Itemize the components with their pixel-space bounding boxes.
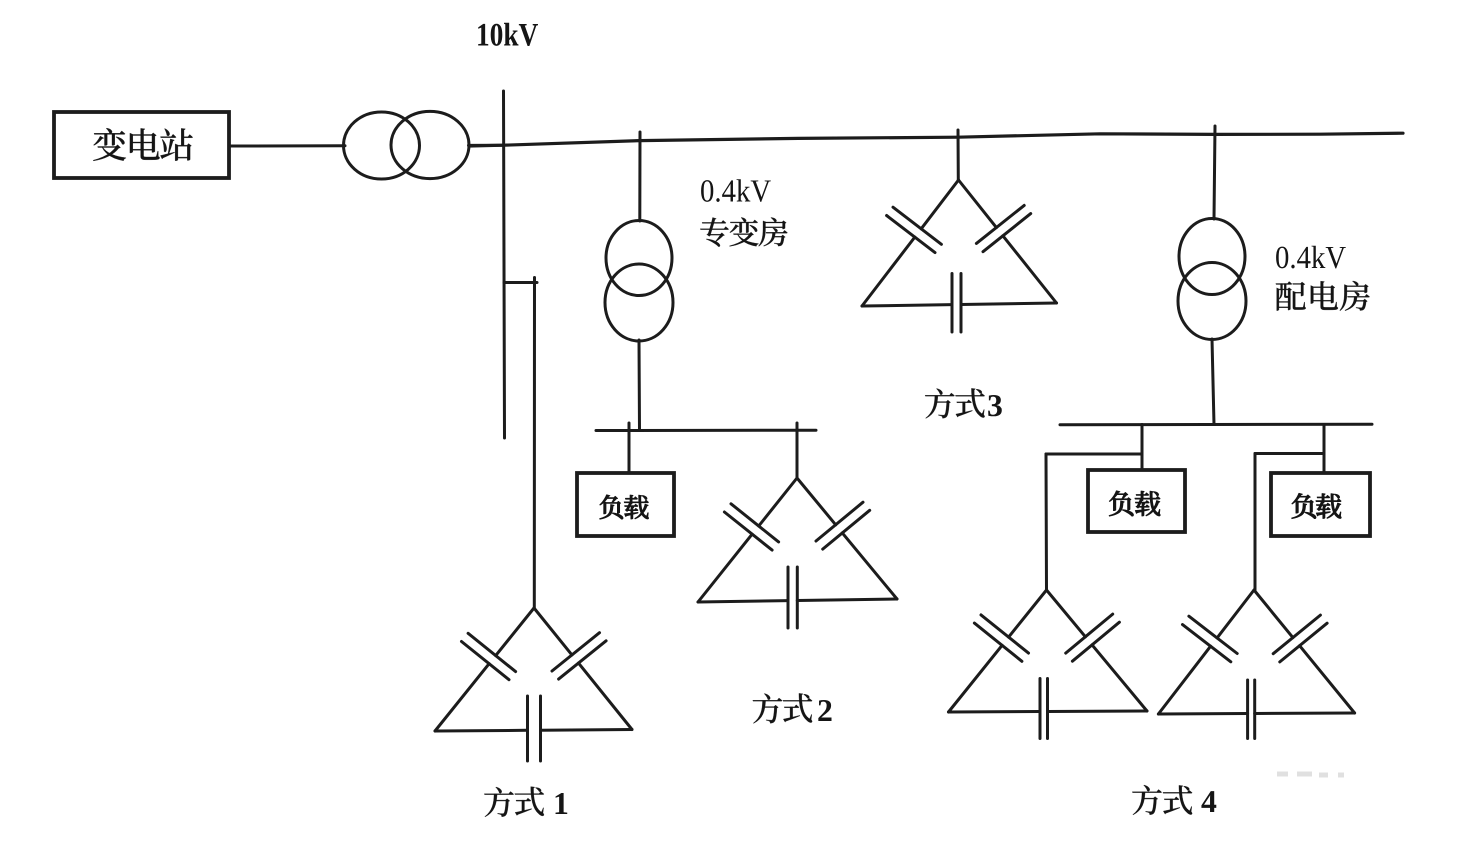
wire tap from 10kV bar (horizontal jog) xyxy=(504,281,537,284)
label 专变房 xyxy=(700,217,787,246)
label 0.4kV xyxy=(701,179,771,202)
wire down to method-4 right bank xyxy=(1254,454,1257,591)
capacitor C5b (right side of delta) xyxy=(1254,590,1355,713)
capacitor C2c (bottom side of delta) xyxy=(698,567,897,628)
load box 负载 (method 4, left) xyxy=(1088,470,1185,532)
wire T0 to 10kV bus xyxy=(469,144,505,147)
substation box 变电站 xyxy=(54,112,229,178)
wire T2 down to LV busbar xyxy=(1212,339,1214,425)
transformer T2 (0.4kV 配电房) xyxy=(1178,219,1246,340)
capacitor C5a (left side of delta) xyxy=(1158,590,1254,714)
label 方式 3 xyxy=(925,388,1002,418)
transformer T1 (0.4kV 专变房) xyxy=(605,221,673,342)
wire stub from bus to method-3 bank xyxy=(957,130,960,180)
label 配电房 xyxy=(1276,281,1370,311)
scan artifact faint dashes xyxy=(1277,774,1344,775)
capacitor C2a (left side of delta) xyxy=(698,478,797,602)
label 10kV xyxy=(478,23,538,46)
label 0.4kV (right) xyxy=(1276,246,1346,269)
capacitor C1a (left side of delta) xyxy=(435,608,534,731)
capacitor C2b (right side of delta) xyxy=(797,478,897,599)
wire busbar down to junction (left drop) xyxy=(1141,425,1144,471)
load box 负载 (method 2) xyxy=(577,473,674,536)
wire junction stub at bus for transformer T2 xyxy=(1214,126,1215,219)
capacitor C3b (right side of delta) xyxy=(959,180,1057,303)
capacitor C1b (right side of delta) xyxy=(534,608,632,730)
wire junction jog to left bank xyxy=(1046,453,1142,456)
capacitor bank delta, method 1 xyxy=(435,608,632,761)
10kV vertical busbar xyxy=(504,91,505,438)
capacitor C1c (bottom side of delta) xyxy=(435,696,632,761)
capacitor C4c (bottom side of delta) xyxy=(949,679,1148,739)
wire junction stub at bus for transformer T1 xyxy=(638,132,641,221)
LV busbar (method 2) xyxy=(596,429,816,432)
label 方式 2 xyxy=(753,693,832,723)
label 方式 1 xyxy=(484,787,567,817)
transformer T0 (two overlapping circles) xyxy=(344,111,470,179)
capacitor C3a (left side of delta) xyxy=(862,180,959,306)
label 方式 4 xyxy=(1132,785,1216,815)
capacitor C3c (bottom side of delta) xyxy=(862,274,1057,333)
top distribution bus wire xyxy=(469,133,1403,146)
capacitor bank delta, method 4 left xyxy=(949,590,1148,739)
load box 负载 (method 4, right) xyxy=(1271,473,1370,536)
wire busbar to load box xyxy=(628,423,631,473)
wire busbar down to junction (right drop) xyxy=(1323,425,1326,474)
capacitor bank delta, method 4 right xyxy=(1158,590,1354,739)
wire T1 down to LV busbar xyxy=(638,340,642,431)
wire busbar to method-2 bank xyxy=(796,423,799,478)
wire junction jog to right bank xyxy=(1255,452,1324,455)
capacitor C4b (right side of delta) xyxy=(1047,590,1148,711)
capacitor C5c (bottom side of delta) xyxy=(1158,680,1354,739)
wire down to method-4 left bank xyxy=(1045,454,1049,590)
wire substation to transformer T0 xyxy=(229,144,345,147)
wire feeder down to method-1 bank xyxy=(533,278,536,609)
capacitor bank delta, method 2 xyxy=(698,478,897,628)
capacitor bank delta, method 3 xyxy=(862,180,1057,332)
capacitor C4a (left side of delta) xyxy=(949,590,1047,712)
LV busbar (method 4) xyxy=(1060,423,1372,427)
